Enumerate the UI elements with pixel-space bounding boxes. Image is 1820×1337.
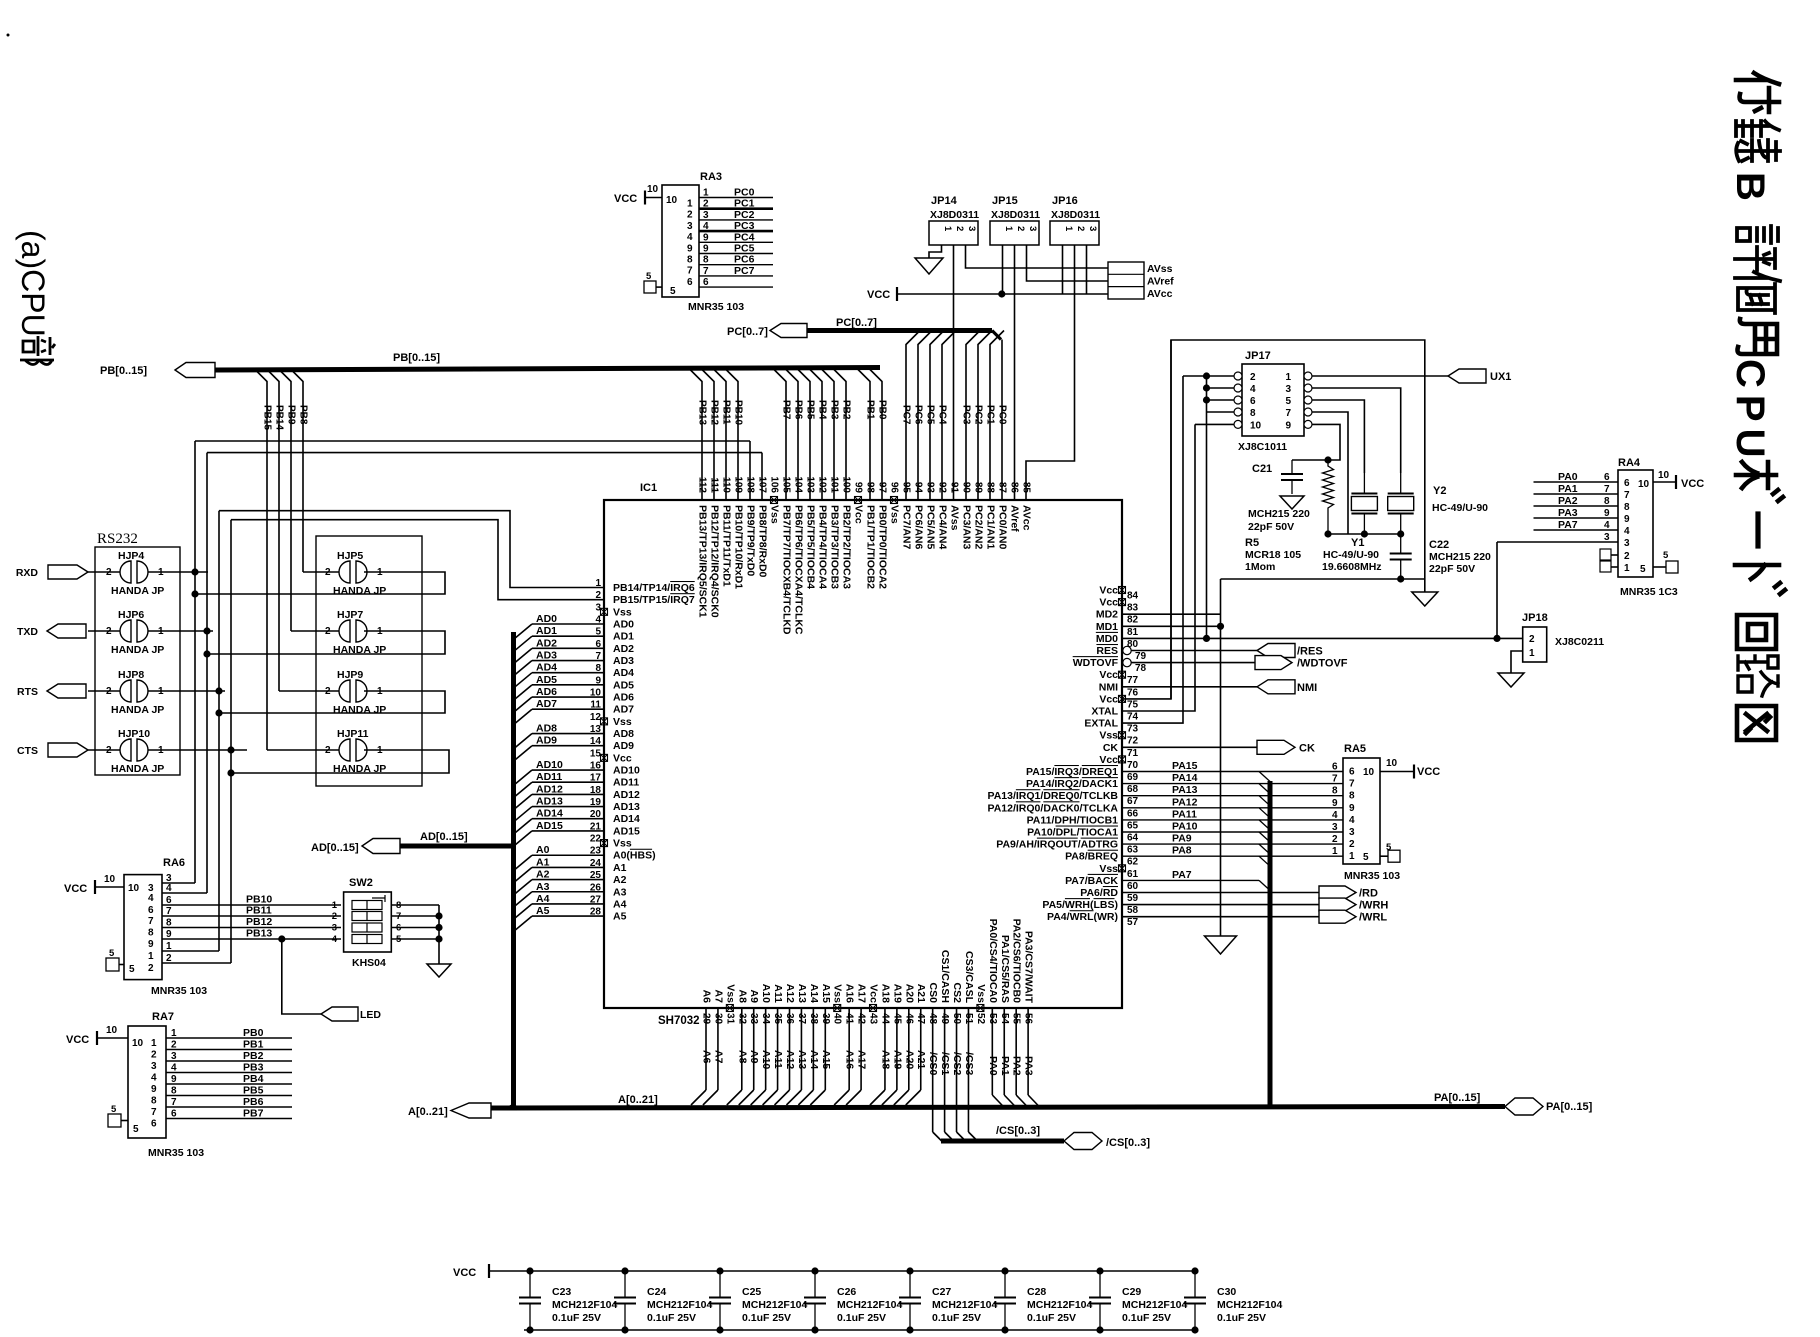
svg-text:A17: A17 bbox=[856, 1050, 868, 1069]
svg-text:KHS04: KHS04 bbox=[352, 957, 386, 969]
net PC[0..7] bus arrow bbox=[727, 324, 807, 339]
wire HJP7 return bbox=[203, 631, 445, 658]
svg-text:4: 4 bbox=[171, 1063, 177, 1074]
svg-text:15: 15 bbox=[590, 748, 602, 759]
svg-text:VCC: VCC bbox=[1417, 766, 1440, 778]
wire /RD bbox=[1122, 892, 1319, 894]
svg-text:A15: A15 bbox=[820, 984, 832, 1003]
svg-text:VCC: VCC bbox=[453, 1267, 476, 1279]
block RS232 outline bbox=[95, 531, 180, 775]
svg-text:PA[0..15]: PA[0..15] bbox=[1434, 1092, 1481, 1104]
wire CK bbox=[1122, 746, 1257, 748]
wire PB15 route to pin 2 bbox=[231, 520, 604, 600]
svg-text:Y2: Y2 bbox=[1433, 485, 1446, 497]
stray mark bbox=[7, 34, 10, 37]
svg-text:2: 2 bbox=[1529, 634, 1535, 645]
svg-text:PA8: PA8 bbox=[1172, 845, 1192, 857]
svg-text:0.1uF 25V: 0.1uF 25V bbox=[932, 1312, 981, 1324]
svg-text:1: 1 bbox=[151, 1038, 157, 1049]
wire MD2 bbox=[1122, 613, 1221, 615]
svg-text:3: 3 bbox=[1027, 226, 1038, 231]
svg-text:MNR35 1C3: MNR35 1C3 bbox=[1620, 586, 1678, 598]
svg-text:MNR35 103: MNR35 103 bbox=[151, 985, 207, 997]
svg-text:A17: A17 bbox=[856, 984, 868, 1003]
svg-text:7: 7 bbox=[166, 906, 172, 917]
svg-text:XJ8C1011: XJ8C1011 bbox=[1238, 441, 1287, 453]
svg-text:PB14: PB14 bbox=[274, 405, 285, 430]
svg-text:HJP11: HJP11 bbox=[337, 728, 369, 740]
wire JP17 pin1 to UX1 bbox=[1312, 375, 1448, 377]
svg-text:8: 8 bbox=[687, 255, 693, 266]
svg-text:9: 9 bbox=[151, 1084, 157, 1095]
resistor array RA7 MNR35 103 bbox=[128, 1011, 204, 1159]
svg-text:MCH212F104: MCH212F104 bbox=[552, 1299, 618, 1311]
svg-text:AD11: AD11 bbox=[613, 777, 639, 789]
svg-text:4: 4 bbox=[703, 221, 709, 232]
svg-text:CPU: CPU bbox=[1728, 359, 1772, 464]
svg-text:PB10: PB10 bbox=[733, 400, 744, 425]
svg-text:4: 4 bbox=[166, 883, 172, 894]
svg-text:6: 6 bbox=[1604, 472, 1610, 483]
RA4 row6 wire bbox=[1497, 532, 1618, 543]
svg-text:PA11/DPH/TIOCB1: PA11/DPH/TIOCB1 bbox=[1027, 814, 1119, 826]
svg-text:10: 10 bbox=[666, 195, 678, 206]
svg-text:AD2: AD2 bbox=[536, 637, 557, 649]
jumper HJP7 HANDA JP bbox=[291, 609, 386, 656]
svg-text:3: 3 bbox=[703, 210, 709, 221]
svg-text:PB12: PB12 bbox=[709, 400, 720, 425]
wire PB bus fan to IC1 top pins bbox=[688, 368, 888, 501]
svg-text:10: 10 bbox=[1638, 479, 1650, 490]
svg-text:7: 7 bbox=[171, 1097, 177, 1108]
svg-text:A20: A20 bbox=[903, 984, 915, 1003]
wire crystal ground rail bbox=[1221, 575, 1425, 582]
svg-text:AVref: AVref bbox=[1147, 276, 1174, 288]
svg-text:MCH212F104: MCH212F104 bbox=[1027, 1299, 1093, 1311]
svg-text:AD4: AD4 bbox=[536, 662, 557, 674]
svg-text:AD3: AD3 bbox=[613, 655, 634, 667]
svg-text:Vcc: Vcc bbox=[853, 505, 865, 524]
svg-text:PB0/TP0/TIOCA2: PB0/TP0/TIOCA2 bbox=[877, 505, 889, 589]
svg-text:5: 5 bbox=[646, 271, 652, 282]
svg-text:A21: A21 bbox=[915, 1050, 927, 1069]
svg-text:PA8/BREQ: PA8/BREQ bbox=[1065, 851, 1118, 863]
svg-text:PC3: PC3 bbox=[961, 405, 972, 425]
svg-text:JP16: JP16 bbox=[1052, 195, 1078, 207]
svg-text:Vcc: Vcc bbox=[1099, 693, 1118, 705]
svg-text:C29: C29 bbox=[1122, 1286, 1141, 1298]
wire RA4 pin3 row to MD0 net bbox=[1496, 542, 1498, 638]
svg-text:/CS0: /CS0 bbox=[927, 1052, 939, 1076]
wire MD1/GND vertical bbox=[1205, 579, 1237, 954]
svg-text:AD8: AD8 bbox=[613, 728, 634, 740]
svg-text:PC5/AN5: PC5/AN5 bbox=[925, 505, 937, 550]
power VCC at RA4 pin 10 bbox=[1653, 470, 1704, 490]
wire HJP11 return bbox=[227, 750, 449, 777]
svg-text:C30: C30 bbox=[1217, 1286, 1236, 1298]
RA4 pin 5 pad bbox=[1653, 550, 1678, 573]
svg-text:3: 3 bbox=[332, 923, 337, 934]
svg-text:PB[0..15]: PB[0..15] bbox=[393, 352, 440, 364]
svg-text:A19: A19 bbox=[891, 1050, 903, 1069]
IC1 top Vss/Vcc pin symbols bbox=[771, 497, 898, 504]
svg-text:4: 4 bbox=[1349, 815, 1355, 826]
svg-text:PC5: PC5 bbox=[925, 405, 936, 425]
resistor R5 MCR18 105 1Mom bbox=[1245, 456, 1334, 573]
svg-text:5: 5 bbox=[1640, 564, 1646, 575]
svg-text:/CS[0..3]: /CS[0..3] bbox=[1106, 1137, 1150, 1149]
svg-text:2: 2 bbox=[166, 953, 172, 964]
wire EXTAL bbox=[1122, 376, 1183, 723]
svg-text:4: 4 bbox=[1624, 526, 1630, 537]
svg-text:AD0: AD0 bbox=[536, 613, 557, 625]
svg-text:HJP5: HJP5 bbox=[337, 550, 363, 562]
wire JP15 pin1 to AVcc rail bbox=[998, 245, 1005, 298]
svg-text:31: 31 bbox=[724, 1013, 735, 1025]
svg-text:CS0: CS0 bbox=[927, 983, 939, 1004]
svg-text:9: 9 bbox=[1285, 420, 1291, 431]
svg-text:2: 2 bbox=[687, 210, 693, 221]
svg-text:MD1: MD1 bbox=[1096, 621, 1118, 633]
svg-text:HJP6: HJP6 bbox=[118, 609, 144, 621]
svg-text:R5: R5 bbox=[1245, 537, 1259, 549]
svg-text:HANDA JP: HANDA JP bbox=[333, 704, 386, 716]
svg-text:4: 4 bbox=[332, 934, 338, 945]
svg-text:5: 5 bbox=[670, 286, 676, 297]
ground at crystal rail bbox=[1412, 592, 1438, 606]
svg-text:7: 7 bbox=[1285, 408, 1291, 419]
wire crystal block frame bbox=[1171, 340, 1425, 699]
wire AD/A vertical bus bbox=[511, 632, 516, 1106]
svg-text:PB5/TP5/TIOCB4: PB5/TP5/TIOCB4 bbox=[805, 505, 817, 589]
svg-text:PA4/WRL(WR): PA4/WRL(WR) bbox=[1047, 911, 1118, 923]
IC1 top pin names and numbers bbox=[697, 476, 1033, 635]
power VCC analog rail bbox=[867, 287, 1108, 301]
wire PC0 to pin 87 bbox=[997, 340, 1008, 501]
svg-text:A12: A12 bbox=[784, 1050, 796, 1069]
capacitor C25 MCH212F104 0.1uF 25V bbox=[709, 1267, 808, 1333]
svg-text:106: 106 bbox=[769, 476, 780, 493]
svg-text:3: 3 bbox=[1285, 384, 1291, 395]
svg-text:3: 3 bbox=[1087, 226, 1098, 231]
svg-text:PA5/WRH(LBS): PA5/WRH(LBS) bbox=[1042, 899, 1118, 911]
svg-text:C27: C27 bbox=[932, 1286, 951, 1298]
svg-text:0.1uF 25V: 0.1uF 25V bbox=[647, 1312, 696, 1324]
wire HJP9 return bbox=[215, 691, 445, 717]
svg-text:AD15: AD15 bbox=[536, 820, 563, 832]
svg-text:PA3: PA3 bbox=[1023, 1056, 1035, 1076]
net A[0..21] bus arrow bbox=[408, 1103, 491, 1118]
svg-text:84: 84 bbox=[1127, 591, 1139, 602]
svg-text:74: 74 bbox=[1127, 712, 1139, 723]
svg-text:59: 59 bbox=[1127, 893, 1139, 904]
svg-text:43: 43 bbox=[868, 1013, 879, 1025]
svg-text:2: 2 bbox=[703, 199, 709, 210]
svg-text:CS3/CASL: CS3/CASL bbox=[963, 951, 975, 1004]
svg-text:VCC: VCC bbox=[867, 289, 890, 301]
RA4 rows 7-8 pads bbox=[1600, 549, 1618, 572]
svg-text:PC5: PC5 bbox=[734, 243, 755, 255]
svg-text:AD13: AD13 bbox=[536, 796, 563, 808]
wire /RES bbox=[1131, 650, 1257, 652]
svg-text:PB8: PB8 bbox=[298, 405, 309, 425]
svg-text:22pF 50V: 22pF 50V bbox=[1248, 521, 1294, 533]
svg-text:5: 5 bbox=[1386, 842, 1392, 853]
wire TXD row bbox=[148, 627, 213, 634]
svg-text:A12: A12 bbox=[784, 984, 796, 1003]
svg-text:Vcc: Vcc bbox=[613, 752, 632, 764]
svg-text:9: 9 bbox=[1624, 514, 1630, 525]
svg-text:(a)CPU: (a)CPU bbox=[15, 230, 51, 337]
svg-text:8: 8 bbox=[1604, 496, 1610, 507]
svg-text:A1: A1 bbox=[536, 856, 550, 868]
svg-text:2: 2 bbox=[332, 911, 337, 922]
svg-text:A6: A6 bbox=[701, 1050, 713, 1064]
svg-text:PA2: PA2 bbox=[1558, 495, 1578, 507]
svg-text:A11: A11 bbox=[772, 1050, 784, 1069]
svg-text:A4: A4 bbox=[613, 898, 627, 910]
wire /CS[0..3] bus bbox=[941, 1125, 1064, 1141]
svg-text:78: 78 bbox=[1135, 663, 1147, 674]
svg-text:AD9: AD9 bbox=[613, 740, 634, 752]
capacitor C30 MCH212F104 0.1uF 25V bbox=[1184, 1267, 1283, 1333]
svg-text:CS1/CASH: CS1/CASH bbox=[939, 950, 951, 1003]
crystal Y2 HC-49/U-90 bbox=[1388, 473, 1488, 534]
svg-text:PC4/AN4: PC4/AN4 bbox=[937, 505, 949, 550]
svg-text:PB7: PB7 bbox=[781, 400, 792, 420]
svg-text:1Mom: 1Mom bbox=[1245, 561, 1275, 573]
wire RxD0 row to pin 108 bbox=[195, 441, 750, 500]
IC IC1 SH7032 body bbox=[604, 482, 1122, 1027]
svg-text:PC7: PC7 bbox=[734, 265, 755, 277]
svg-text:PC3: PC3 bbox=[734, 220, 755, 232]
svg-text:Vcc: Vcc bbox=[1099, 597, 1118, 609]
resistor array RA4 MNR35 103 bbox=[1618, 457, 1678, 598]
svg-text:4: 4 bbox=[1332, 810, 1338, 821]
IC1 right pin names and numbers bbox=[987, 585, 1146, 929]
svg-text:96: 96 bbox=[889, 482, 900, 494]
IC1 left pin names and numbers bbox=[590, 578, 695, 923]
svg-text:6: 6 bbox=[1250, 396, 1256, 407]
wire MD0 to JP18 bbox=[1122, 635, 1523, 642]
svg-text:AVss: AVss bbox=[1147, 263, 1173, 275]
svg-text:PB15/TP15/IRQ7: PB15/TP15/IRQ7 bbox=[613, 594, 695, 606]
svg-text:A[0..21]: A[0..21] bbox=[618, 1094, 658, 1106]
svg-text:HC-49/U-90: HC-49/U-90 bbox=[1432, 502, 1488, 514]
svg-text:AD4: AD4 bbox=[613, 667, 634, 679]
wire JP17 pin10 to XTAL vertical bbox=[1195, 423, 1234, 425]
svg-text:77: 77 bbox=[1127, 675, 1139, 686]
svg-text:PC0: PC0 bbox=[734, 187, 755, 199]
svg-text:52: 52 bbox=[975, 1013, 986, 1025]
svg-text:0.1uF 25V: 0.1uF 25V bbox=[1217, 1312, 1266, 1324]
capacitor C23 MCH212F104 0.1uF 25V bbox=[519, 1267, 618, 1333]
svg-text:A3: A3 bbox=[613, 886, 627, 898]
svg-text:6: 6 bbox=[171, 1109, 177, 1120]
svg-text:PC0/AN0: PC0/AN0 bbox=[997, 505, 1009, 550]
svg-text:PA12/IRQ0/DACK0/TCLKA: PA12/IRQ0/DACK0/TCLKA bbox=[987, 802, 1118, 814]
svg-text:62: 62 bbox=[1127, 857, 1139, 868]
svg-text:57: 57 bbox=[1127, 917, 1139, 928]
svg-text:1: 1 bbox=[166, 941, 172, 952]
svg-text:PB9: PB9 bbox=[286, 405, 297, 425]
wire JP15 pin3 to AVref box bbox=[1027, 245, 1109, 281]
svg-text:7: 7 bbox=[687, 266, 693, 277]
svg-text:AD7: AD7 bbox=[536, 698, 557, 710]
connector JP15 XJ8D0311 bbox=[990, 195, 1040, 245]
svg-text:63: 63 bbox=[1127, 845, 1139, 856]
IC1 RES/WDTOVF inversion bubbles bbox=[1123, 646, 1131, 667]
svg-text:AD5: AD5 bbox=[613, 679, 634, 691]
svg-text:A5: A5 bbox=[536, 905, 550, 917]
svg-text:8: 8 bbox=[1250, 408, 1256, 419]
wire MD1 bbox=[1122, 623, 1224, 630]
port RXD bbox=[16, 565, 88, 579]
svg-text:TXD: TXD bbox=[17, 626, 38, 638]
svg-text:10: 10 bbox=[104, 874, 116, 885]
svg-text:VCC: VCC bbox=[1681, 478, 1704, 490]
svg-text:VCC: VCC bbox=[66, 1034, 89, 1046]
svg-text:22pF 50V: 22pF 50V bbox=[1429, 563, 1475, 575]
svg-text:PA2: PA2 bbox=[1011, 1056, 1023, 1076]
capacitor C26 MCH212F104 0.1uF 25V bbox=[804, 1267, 903, 1333]
svg-text:A11: A11 bbox=[772, 984, 784, 1003]
resistor array RA6 MNR35 103 bbox=[124, 857, 207, 997]
svg-text:AD10: AD10 bbox=[536, 759, 563, 771]
svg-text:CS2: CS2 bbox=[951, 983, 963, 1004]
svg-text:EXTAL: EXTAL bbox=[1084, 718, 1118, 730]
svg-text:75: 75 bbox=[1127, 699, 1139, 710]
svg-text:2: 2 bbox=[148, 963, 154, 974]
svg-text:C26: C26 bbox=[837, 1286, 856, 1298]
svg-text:4: 4 bbox=[1604, 520, 1610, 531]
wire JP17 pin5 to Y1 bbox=[1312, 400, 1364, 473]
svg-text:HANDA JP: HANDA JP bbox=[111, 704, 164, 716]
caption (a)CPU-bu left margin bbox=[15, 230, 55, 365]
wire JP17 pin7 down bbox=[1312, 412, 1348, 534]
svg-text:AD13: AD13 bbox=[613, 801, 640, 813]
svg-text:4: 4 bbox=[1250, 384, 1256, 395]
wire JP14 pin3 to AVss box bbox=[966, 245, 1109, 268]
jumper HJP11 HANDA JP bbox=[267, 728, 386, 775]
svg-text:7: 7 bbox=[703, 266, 709, 277]
svg-text:5: 5 bbox=[111, 1104, 117, 1115]
svg-text:PB10/TP10/RxD1: PB10/TP10/RxD1 bbox=[733, 505, 745, 589]
svg-text:PB1/TP1/TIOCB2: PB1/TP1/TIOCB2 bbox=[865, 505, 877, 589]
svg-text:HJP10: HJP10 bbox=[118, 728, 150, 740]
svg-text:AD1: AD1 bbox=[613, 631, 634, 643]
wire CTS row bbox=[148, 746, 247, 753]
svg-text:Vss: Vss bbox=[769, 505, 781, 524]
svg-text:6: 6 bbox=[166, 895, 172, 906]
svg-text:NMI: NMI bbox=[1099, 681, 1118, 693]
svg-text:1: 1 bbox=[332, 900, 338, 911]
svg-text:HJP8: HJP8 bbox=[118, 669, 144, 681]
svg-text:10: 10 bbox=[647, 184, 659, 195]
svg-text:3: 3 bbox=[966, 226, 977, 231]
svg-text:Vss: Vss bbox=[832, 984, 844, 1003]
svg-text:PC6/AN6: PC6/AN6 bbox=[913, 505, 925, 550]
wire RXD row bbox=[148, 568, 208, 575]
svg-text:SH7032: SH7032 bbox=[658, 1015, 700, 1027]
svg-text:AD2: AD2 bbox=[613, 643, 634, 655]
svg-text:PA0: PA0 bbox=[1558, 471, 1578, 483]
svg-text:72: 72 bbox=[1127, 736, 1139, 747]
svg-text:1: 1 bbox=[1332, 846, 1338, 857]
svg-text:CTS: CTS bbox=[17, 745, 38, 757]
svg-text:0.1uF 25V: 0.1uF 25V bbox=[837, 1312, 886, 1324]
svg-text:MNR35 103: MNR35 103 bbox=[688, 301, 744, 313]
svg-text:5: 5 bbox=[109, 948, 115, 959]
svg-text:RA3: RA3 bbox=[700, 171, 722, 183]
svg-text:1: 1 bbox=[148, 951, 154, 962]
connector JP17 XJ8C1011 bbox=[1234, 350, 1312, 453]
svg-text:9: 9 bbox=[171, 1074, 177, 1085]
svg-text:1: 1 bbox=[1285, 372, 1291, 383]
svg-text:HANDA JP: HANDA JP bbox=[333, 585, 386, 597]
svg-text:9: 9 bbox=[703, 232, 709, 243]
wire PB15/PB14/PB9/PB8 bus taps bbox=[254, 369, 309, 751]
wire PB[0..15] bus bbox=[215, 352, 880, 370]
svg-text:58: 58 bbox=[1127, 905, 1139, 916]
svg-text:A21: A21 bbox=[915, 984, 927, 1003]
svg-text:PC[0..7]: PC[0..7] bbox=[727, 326, 768, 338]
svg-text:8: 8 bbox=[148, 928, 154, 939]
svg-text:Vcc: Vcc bbox=[868, 984, 880, 1003]
svg-text:PC0: PC0 bbox=[997, 405, 1008, 425]
svg-text:82: 82 bbox=[1127, 615, 1139, 626]
svg-text:XJ8D0311: XJ8D0311 bbox=[1051, 209, 1100, 221]
svg-text:3: 3 bbox=[1349, 827, 1355, 838]
svg-text:PB6: PB6 bbox=[243, 1096, 264, 1108]
svg-text:2: 2 bbox=[1349, 839, 1355, 850]
svg-text:A5: A5 bbox=[613, 911, 627, 923]
connector AVss/AVref/AVcc box bbox=[1108, 262, 1174, 300]
svg-text:9: 9 bbox=[687, 243, 693, 254]
svg-text:Vss: Vss bbox=[613, 606, 632, 618]
svg-text:PB[0..15]: PB[0..15] bbox=[100, 365, 147, 377]
svg-text:76: 76 bbox=[1127, 687, 1139, 698]
svg-text:1: 1 bbox=[703, 188, 709, 199]
svg-text:A19: A19 bbox=[891, 984, 903, 1003]
svg-text:A15: A15 bbox=[820, 1050, 832, 1069]
capacitor C24 MCH212F104 0.1uF 25V bbox=[614, 1267, 713, 1333]
svg-text:B: B bbox=[1728, 172, 1772, 201]
svg-text:JP14: JP14 bbox=[931, 195, 958, 207]
svg-text:AD12: AD12 bbox=[613, 789, 640, 801]
IC1 bottom Vss/Vcc pin symbols bbox=[726, 1005, 984, 1012]
wire TP net vertical 3 bbox=[218, 511, 220, 951]
svg-text:PA[0..15]: PA[0..15] bbox=[1546, 1101, 1593, 1113]
crystal Y1 HC-49/U-90 19.6608MHz bbox=[1322, 473, 1382, 573]
svg-text:MNR35 103: MNR35 103 bbox=[1344, 870, 1400, 882]
wire JP16 pin2 to AVcc pin 85 bbox=[1026, 245, 1075, 500]
svg-text:81: 81 bbox=[1127, 627, 1139, 638]
svg-text:AD12: AD12 bbox=[536, 783, 563, 795]
net LED bbox=[281, 939, 381, 1021]
svg-text:4: 4 bbox=[148, 893, 154, 904]
svg-text:61: 61 bbox=[1127, 869, 1139, 880]
svg-text:PB4: PB4 bbox=[243, 1073, 264, 1085]
svg-text:C25: C25 bbox=[742, 1286, 761, 1298]
svg-text:AVref: AVref bbox=[1009, 505, 1021, 532]
svg-text:10: 10 bbox=[128, 883, 140, 894]
svg-text:PB12/TP12/IRQ4/SCK0: PB12/TP12/IRQ4/SCK0 bbox=[709, 505, 721, 618]
svg-text:A9: A9 bbox=[748, 990, 760, 1004]
RA3 pin 5 pad bbox=[644, 271, 662, 293]
svg-text:3: 3 bbox=[687, 221, 693, 232]
svg-text:PA7: PA7 bbox=[1558, 519, 1578, 531]
